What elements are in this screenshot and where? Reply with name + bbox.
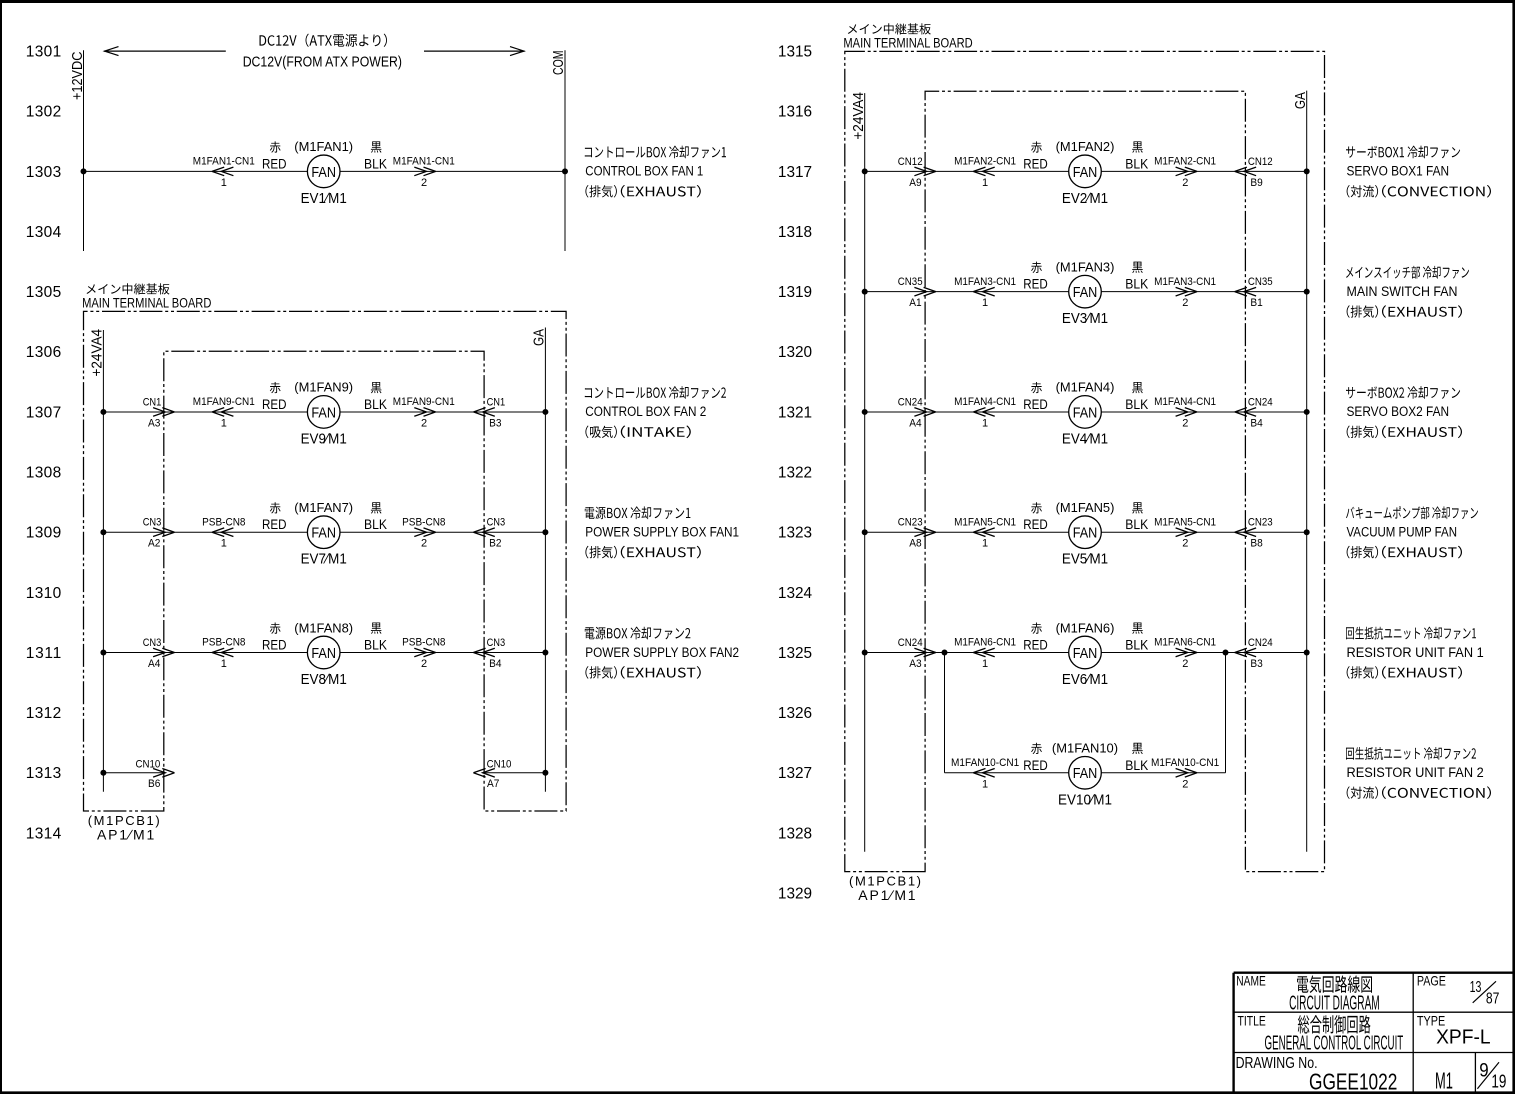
svg-text:CN3: CN3 [487,517,506,529]
svg-text:2: 2 [1182,177,1188,189]
svg-text:EV9∕M1: EV9∕M1 [301,430,347,447]
svg-text:1: 1 [982,417,988,429]
svg-text:M1FAN3-CN1: M1FAN3-CN1 [1154,276,1216,288]
svg-text:1305: 1305 [26,284,61,301]
svg-text:CN12: CN12 [898,156,923,168]
line number 1322 [778,464,812,481]
fan motor EV5/M1 (M1FAN5) [1056,500,1115,568]
wire color label red [262,141,287,171]
connector M1FAN4-CN1 pin 2 [1154,396,1216,429]
connector M1FAN9-CN1 pin 2 [393,396,455,429]
svg-text:2: 2 [1182,658,1188,670]
svg-text:1301: 1301 [26,44,61,61]
svg-text:EV3∕M1: EV3∕M1 [1062,310,1108,327]
wire color label black [1125,262,1148,292]
fan motor EV6/M1 (M1FAN6) [1056,620,1115,688]
svg-text:CN23: CN23 [898,517,923,529]
wire color label black [1125,382,1148,412]
node +24VA4 junction 1321 [862,409,868,415]
svg-text:EV10∕M1: EV10∕M1 [1058,791,1112,808]
connector M1FAN5-CN1 pin 2 [1154,516,1216,549]
svg-text:PSB-CN8: PSB-CN8 [402,637,445,649]
node GA junction 1313 [542,770,548,776]
svg-text:1316: 1316 [778,104,812,121]
svg-text:A7: A7 [487,778,499,790]
net GA [1292,91,1309,852]
label board name (M1PCB1) AP1/M1 [849,874,921,904]
svg-text:1311: 1311 [26,645,61,662]
wire color label black [1125,743,1148,773]
title block TITLE: GENERAL CONTROL CIRCUIT [1238,1013,1404,1055]
svg-text:BLK: BLK [1125,397,1148,412]
arrow left to +12VDC [104,47,226,56]
svg-text:1323: 1323 [778,525,812,542]
svg-text:RED: RED [1023,758,1048,773]
svg-text:SERVO BOX1 FAN: SERVO BOX1 FAN [1347,164,1450,180]
node +24VA4 junction 1325 [862,650,868,656]
power rail +12VDC [69,50,86,251]
connector CN1 pin B3 (board edge right) [473,396,505,429]
node +24VA4 junction 1319 [862,289,868,295]
connector M1FAN2-CN1 pin 1 [954,156,1016,189]
connector M1FAN5-CN1 pin 1 [954,516,1016,549]
svg-text:A3: A3 [148,417,160,429]
svg-text:1326: 1326 [778,705,812,722]
line number 1323 [778,525,812,542]
svg-text:FAN: FAN [1073,284,1098,301]
line number 1309 [26,525,61,542]
svg-text:CN24: CN24 [1248,396,1273,408]
title block TYPE: XPF-L [1417,1013,1491,1049]
connector M1FAN9-CN1 pin 1 [193,396,255,429]
line number 1318 [778,224,812,241]
wire color label black [364,141,387,171]
svg-text:CN3: CN3 [487,637,506,649]
svg-text:B9: B9 [1250,177,1262,189]
svg-text:1: 1 [221,538,227,550]
svg-text:M1FAN6-CN1: M1FAN6-CN1 [1154,637,1216,649]
fan motor EV2/M1 (M1FAN2) [1056,139,1115,207]
svg-text:MAIN TERMINAL BOARD: MAIN TERMINAL BOARD [843,36,972,51]
svg-text:MAIN TERMINAL BOARD: MAIN TERMINAL BOARD [82,296,211,311]
svg-text:1324: 1324 [778,585,813,602]
svg-text:CN10: CN10 [487,758,512,770]
node +24VA4 junction 1309 [100,529,106,535]
wire EV1/M1 row [84,170,566,172]
line number 1321 [778,404,812,421]
svg-text:A3: A3 [909,658,921,670]
wire color label red [262,623,287,653]
svg-text:2: 2 [1182,778,1188,790]
node GA junction 1311 [542,650,548,656]
svg-text:CN24: CN24 [898,637,923,649]
line number 1310 [26,585,62,602]
svg-text:1: 1 [982,658,988,670]
connector CN24 pin B4 (board edge right) [1235,396,1273,429]
svg-text:FAN: FAN [311,645,336,662]
line number 1307 [26,404,61,421]
svg-text:BLK: BLK [1125,638,1148,653]
wire EV2/M1 row [865,170,1307,172]
connector CN23 pin A8 (board edge left) [898,517,936,550]
connector M1FAN6-CN1 pin 2 [1154,637,1216,670]
svg-text:PAGE: PAGE [1417,972,1446,988]
svg-text:B3: B3 [489,417,501,429]
wire CN10 row right [484,772,545,774]
line number 1302 [26,104,61,121]
svg-text:B3: B3 [1250,658,1262,670]
svg-text:2: 2 [421,658,427,670]
svg-text:1: 1 [221,658,227,670]
svg-text:1328: 1328 [778,825,812,842]
svg-text:M1FAN1-CN1: M1FAN1-CN1 [393,156,455,168]
wire color label red [1023,502,1048,532]
connector CN3 pin A4 (board edge left) [143,637,175,670]
line number 1317 [778,164,812,181]
wire EV3/M1 row [865,291,1307,293]
svg-text:CONTROL BOX FAN 2: CONTROL BOX FAN 2 [585,404,706,420]
svg-text:MAIN SWITCH FAN: MAIN SWITCH FAN [1347,284,1458,300]
node branch EV10 left junction [942,650,948,656]
svg-text:1: 1 [221,177,227,189]
svg-text:1312: 1312 [26,705,61,722]
node branch EV10 right junction [1223,650,1229,656]
svg-text:M1FAN5-CN1: M1FAN5-CN1 [954,516,1016,528]
arrow right to COM [424,47,525,56]
svg-text:B4: B4 [1250,417,1262,429]
label MAIN TERMINAL BOARD [843,23,972,50]
svg-text:1307: 1307 [26,404,61,421]
line number 1324 [778,585,813,602]
svg-text:CN3: CN3 [143,517,162,529]
svg-text:EV5∕M1: EV5∕M1 [1062,551,1108,568]
svg-text:A4: A4 [148,658,160,670]
label board name (M1PCB1) AP1/M1 [88,813,160,843]
connector CN23 pin B8 (board edge right) [1235,517,1273,550]
svg-text:FAN: FAN [1073,525,1098,542]
connector CN24 pin A4 (board edge left) [898,396,936,429]
wire color label red [1023,382,1048,412]
fan motor EV3/M1 (M1FAN3) [1056,259,1115,327]
svg-text:(M1FAN9): (M1FAN9) [294,380,353,395]
svg-text:PSB-CN8: PSB-CN8 [202,516,245,528]
svg-text:1329: 1329 [778,885,812,902]
svg-text:1322: 1322 [778,464,812,481]
wire color label red [1023,623,1048,653]
line number 1311 [26,645,61,662]
svg-text:XPF-L: XPF-L [1436,1027,1491,1049]
svg-text:FAN: FAN [311,525,336,542]
svg-text:GA: GA [1292,92,1309,109]
svg-text:2: 2 [421,538,427,550]
title block frame [1234,973,1513,1092]
line number 1319 [778,284,812,301]
connector PSB-CN8 pin 2 [402,637,445,670]
svg-text:M1FAN6-CN1: M1FAN6-CN1 [954,637,1016,649]
svg-text:RESISTOR UNIT FAN 1: RESISTOR UNIT FAN 1 [1347,645,1484,661]
svg-text:1: 1 [982,538,988,550]
line number 1301 [26,44,61,61]
svg-text:CN23: CN23 [1248,517,1273,529]
svg-text:VACUUM PUMP FAN: VACUUM PUMP FAN [1347,525,1458,541]
line number 1306 [26,344,61,361]
svg-text:1319: 1319 [778,284,812,301]
svg-text:COM: COM [550,51,567,76]
wire color label black [1125,141,1148,171]
svg-text:1306: 1306 [26,344,61,361]
svg-text:(M1FAN5): (M1FAN5) [1056,500,1115,515]
line number 1314 [26,825,62,842]
svg-text:RESISTOR UNIT FAN 2: RESISTOR UNIT FAN 2 [1347,765,1484,781]
svg-text:CN1: CN1 [487,396,506,408]
svg-text:(M1FAN10): (M1FAN10) [1052,741,1118,756]
svg-text:EV2∕M1: EV2∕M1 [1062,190,1108,207]
svg-text:CN1: CN1 [143,396,162,408]
connector M1FAN2-CN1 pin 2 [1154,156,1216,189]
wire EV9/M1 row [103,411,545,413]
node +24VA4 junction 1323 [862,529,868,535]
fan motor EV7/M1 (M1FAN7) [294,500,353,568]
connector M1FAN1-CN1 pin 1 [193,156,255,189]
connector CN10 pin A7 (board edge right) [473,758,511,790]
line number 1312 [26,705,61,722]
wire EV8/M1 row [103,652,545,654]
svg-text:A2: A2 [148,538,160,550]
node GA junction 1321 [1304,409,1310,415]
svg-text:CIRCUIT DIAGRAM: CIRCUIT DIAGRAM [1289,992,1380,1014]
wire CN10 row left [103,772,163,774]
svg-text:CN24: CN24 [898,396,923,408]
connector CN3 pin B4 (board edge right) [473,637,505,670]
line number 1308 [26,464,61,481]
connector CN12 pin A9 (board edge left) [898,156,936,189]
title block sheet M1 [1435,1068,1453,1094]
wire color label black [364,502,387,532]
svg-text:M1FAN10-CN1: M1FAN10-CN1 [951,757,1019,769]
wire color label red [1023,141,1048,171]
svg-text:A4: A4 [909,417,921,429]
svg-text:(M1FAN1): (M1FAN1) [294,139,353,154]
svg-text:RED: RED [1023,638,1048,653]
svg-text:A1: A1 [909,297,921,309]
svg-text:GENERAL CONTROL CIRCUIT: GENERAL CONTROL CIRCUIT [1265,1031,1404,1054]
node +24VA4 junction 1311 [100,650,106,656]
svg-text:87: 87 [1486,991,1500,1008]
svg-text:(M1FAN3): (M1FAN3) [1056,259,1115,274]
svg-text:FAN: FAN [1073,645,1098,662]
svg-text:RED: RED [262,156,287,171]
svg-text:2: 2 [421,177,427,189]
power rail +24VA4 [850,92,867,852]
line number 1303 [26,164,61,181]
svg-text:1308: 1308 [26,464,61,481]
svg-text:1325: 1325 [778,645,812,662]
connector CN35 pin A1 (board edge left) [898,276,936,309]
connector M1FAN10-CN1 pin 1 [951,757,1019,790]
svg-text:1304: 1304 [26,224,62,241]
svg-text:1303: 1303 [26,164,61,181]
wire EV6/M1 row [865,652,1307,654]
svg-text:BLK: BLK [1125,156,1148,171]
net COM [550,50,567,251]
svg-text:BLK: BLK [364,156,387,171]
node GA junction 1319 [1304,289,1310,295]
fan motor EV10/M1 (M1FAN10) [1052,741,1118,809]
svg-text:EV4∕M1: EV4∕M1 [1062,430,1108,447]
svg-text:GGEE1022: GGEE1022 [1309,1068,1397,1094]
connector M1FAN3-CN1 pin 2 [1154,276,1216,309]
svg-text:BLK: BLK [1125,758,1148,773]
svg-text:M1FAN2-CN1: M1FAN2-CN1 [954,156,1016,168]
svg-text:NAME: NAME [1236,973,1266,989]
svg-text:(M1FAN6): (M1FAN6) [1056,620,1115,635]
title block revision 9/19 [1477,1059,1506,1091]
connector M1FAN6-CN1 pin 1 [954,637,1016,670]
svg-text:FAN: FAN [1073,164,1098,181]
svg-text:1317: 1317 [778,164,812,181]
svg-text:1: 1 [982,297,988,309]
svg-text:CN24: CN24 [1248,637,1273,649]
wire branch left EV6 to EV10 [944,653,946,773]
connector CN12 pin B9 (board edge right) [1235,156,1273,189]
svg-text:POWER SUPPLY BOX FAN1: POWER SUPPLY BOX FAN1 [585,525,739,541]
label DC12V (ATX power) [243,34,402,71]
svg-text:(M1FAN7): (M1FAN7) [294,500,353,515]
svg-text:1314: 1314 [26,825,62,842]
line number 1315 [778,44,812,61]
svg-text:A8: A8 [909,538,921,550]
power rail +24VA4 [89,329,106,792]
svg-text:M1FAN4-CN1: M1FAN4-CN1 [954,396,1016,408]
svg-text:CN3: CN3 [143,637,162,649]
svg-text:+12VDC: +12VDC [69,51,86,100]
svg-text:2: 2 [421,417,427,429]
svg-text:1321: 1321 [778,404,812,421]
svg-text:BLK: BLK [1125,277,1148,292]
connector CN35 pin B1 (board edge right) [1235,276,1273,309]
svg-text:19: 19 [1491,1072,1506,1092]
connector PSB-CN8 pin 1 [202,516,245,549]
svg-text:1: 1 [221,417,227,429]
svg-text:1318: 1318 [778,224,812,241]
title block PAGE: 13/87 [1417,972,1500,1007]
connector CN24 pin A3 (board edge left) [898,637,936,670]
connector CN10 pin B6 (board edge left) [136,758,175,790]
svg-text:BLK: BLK [364,638,387,653]
wire color label red [262,382,287,412]
svg-text:+24VA4: +24VA4 [850,92,867,140]
svg-text:AP1∕M1: AP1∕M1 [97,827,155,843]
wire EV4/M1 row [865,411,1307,413]
connector PSB-CN8 pin 1 [202,637,245,670]
svg-text:CN10: CN10 [136,758,161,770]
svg-text:1327: 1327 [778,765,812,782]
node COM junction 1303 [562,168,568,174]
svg-text:GA: GA [531,329,548,346]
svg-text:CN12: CN12 [1248,156,1273,168]
svg-text:DRAWING No.: DRAWING No. [1236,1055,1318,1072]
svg-text:B6: B6 [148,778,160,790]
node GA junction 1307 [542,409,548,415]
wire color label red [1023,743,1048,773]
connector CN3 pin B2 (board edge right) [473,517,505,550]
svg-text:FAN: FAN [311,164,336,181]
svg-text:A9: A9 [909,177,921,189]
svg-text:M1FAN4-CN1: M1FAN4-CN1 [1154,396,1216,408]
connector CN1 pin A3 (board edge left) [143,396,175,429]
svg-text:EV6∕M1: EV6∕M1 [1062,671,1108,688]
svg-text:M1FAN2-CN1: M1FAN2-CN1 [1154,156,1216,168]
node +24VA4 junction 1317 [862,168,868,174]
svg-text:PSB-CN8: PSB-CN8 [202,637,245,649]
svg-text:CN35: CN35 [1248,276,1273,288]
svg-text:RED: RED [262,638,287,653]
svg-text:1313: 1313 [26,765,61,782]
svg-text:DC12V(FROM ATX POWER): DC12V(FROM ATX POWER) [243,54,402,70]
svg-text:SERVO BOX2 FAN: SERVO BOX2 FAN [1347,404,1450,420]
svg-text:M1FAN1-CN1: M1FAN1-CN1 [193,156,255,168]
svg-text:M1FAN10-CN1: M1FAN10-CN1 [1151,757,1219,769]
svg-text:B1: B1 [1250,297,1262,309]
wire EV5/M1 row [865,531,1307,533]
svg-text:M1FAN9-CN1: M1FAN9-CN1 [193,396,255,408]
svg-text:2: 2 [1182,417,1188,429]
svg-text:RED: RED [1023,156,1048,171]
svg-text:(M1FAN4): (M1FAN4) [1056,380,1115,395]
svg-text:PSB-CN8: PSB-CN8 [402,516,445,528]
wire color label red [1023,262,1048,292]
board AP1/M1 (M1PCB1) MAIN TERMINAL BOARD outline [845,51,1325,871]
line number 1304 [26,224,62,241]
label MAIN TERMINAL BOARD [82,283,211,310]
svg-text:(M1FAN8): (M1FAN8) [294,620,353,635]
svg-text:1309: 1309 [26,525,61,542]
label CONTROL BOX FAN 1 description [585,146,726,198]
connector PSB-CN8 pin 2 [402,516,445,549]
wire color label black [364,623,387,653]
line number 1326 [778,705,812,722]
wire color label black [1125,623,1148,653]
svg-text:EV7∕M1: EV7∕M1 [301,551,347,568]
title block DRAWING No: GGEE1022 [1236,1055,1398,1094]
net GA [531,328,548,792]
fan motor EV8/M1 (M1FAN8) [294,620,353,688]
fan motor EV9/M1 (M1FAN9) [294,380,353,448]
svg-text:M1FAN5-CN1: M1FAN5-CN1 [1154,516,1216,528]
svg-text:BLK: BLK [364,397,387,412]
svg-text:1302: 1302 [26,104,61,121]
wire color label red [262,502,287,532]
connector CN24 pin B3 (board edge right) [1235,637,1273,670]
svg-text:POWER SUPPLY BOX FAN2: POWER SUPPLY BOX FAN2 [585,645,739,661]
line number 1327 [778,765,812,782]
line number 1316 [778,104,812,121]
svg-text:1: 1 [982,778,988,790]
svg-text:FAN: FAN [1073,404,1098,421]
svg-text:1315: 1315 [778,44,812,61]
line number 1329 [778,885,812,902]
node GA junction 1309 [542,529,548,535]
line number 1328 [778,825,812,842]
fan motor EV1/M1 (M1FAN1) [294,139,353,207]
line number 1305 [26,284,61,301]
node +24VA4 junction 1313 [100,770,106,776]
svg-text:+24VA4: +24VA4 [89,329,106,377]
svg-text:EV8∕M1: EV8∕M1 [301,671,347,688]
connector M1FAN3-CN1 pin 1 [954,276,1016,309]
line number 1325 [778,645,812,662]
svg-text:B4: B4 [489,658,501,670]
